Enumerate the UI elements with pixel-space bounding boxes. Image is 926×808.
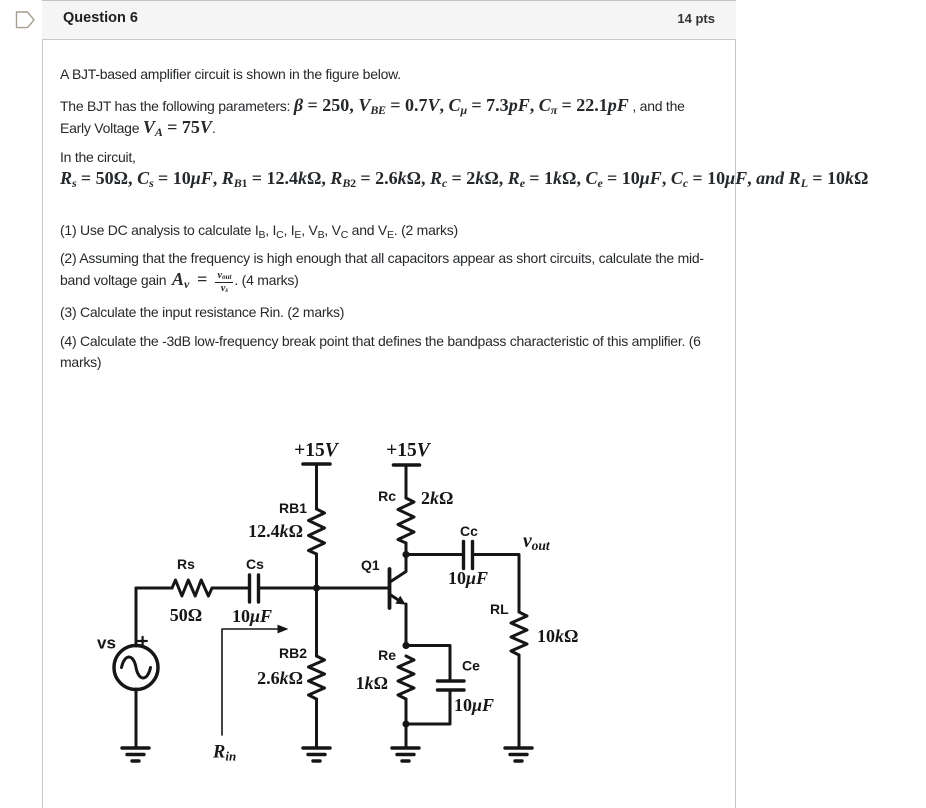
ground under Re bbox=[392, 748, 419, 761]
resistor Rc bbox=[398, 498, 414, 543]
wire Cc to vout corner bbox=[473, 555, 520, 613]
paragraph 1 bbox=[60, 64, 401, 85]
item 1 bbox=[60, 220, 458, 241]
svg-text:10μF: 10μF bbox=[232, 606, 272, 626]
svg-text:Q1: Q1 bbox=[361, 557, 380, 573]
source vs bbox=[114, 646, 158, 690]
question header bbox=[42, 0, 734, 1]
item 2 bbox=[60, 248, 704, 293]
resistor RB2 bbox=[309, 656, 325, 699]
node base junction bbox=[313, 584, 320, 591]
node collector bbox=[402, 551, 409, 558]
wire collector to Cc bbox=[406, 553, 463, 556]
svg-text:12.4kΩ: 12.4kΩ bbox=[248, 521, 303, 541]
wire supply to RB1 bbox=[315, 464, 318, 509]
wire RL to ground bbox=[518, 655, 521, 747]
svg-text:RB1: RB1 bbox=[279, 500, 307, 516]
svg-text:RB2: RB2 bbox=[279, 645, 307, 661]
svg-text:10kΩ: 10kΩ bbox=[537, 626, 578, 646]
resistor RB1 bbox=[309, 509, 325, 554]
supply bar left (+15V RB1 branch) bbox=[303, 462, 330, 466]
wire vs to Rs bbox=[136, 587, 172, 590]
svg-text:Rs: Rs bbox=[177, 556, 195, 572]
svg-text:+15V: +15V bbox=[386, 440, 432, 461]
resistor Rs bbox=[172, 580, 212, 596]
wire vs bottom bbox=[135, 689, 138, 747]
wire vs top bbox=[135, 588, 138, 646]
svg-text:10μF: 10μF bbox=[448, 568, 488, 588]
question container bbox=[42, 0, 736, 808]
svg-text:vout: vout bbox=[523, 531, 551, 553]
svg-text:Ce: Ce bbox=[462, 658, 480, 674]
svg-text:2kΩ: 2kΩ bbox=[421, 488, 453, 508]
Rin measurement arrow bbox=[222, 625, 289, 735]
wire emitter node to Ce top bbox=[406, 646, 450, 680]
svg-text:1kΩ: 1kΩ bbox=[356, 673, 388, 693]
wire RB1 to RB2 through base node bbox=[315, 554, 318, 656]
item 3 bbox=[60, 302, 344, 323]
paragraph 2 bbox=[60, 95, 685, 139]
capacitor Ce bbox=[438, 681, 465, 690]
transistor Q1 bbox=[388, 569, 392, 608]
svg-text:10μF: 10μF bbox=[454, 695, 494, 715]
plus polarity bbox=[138, 637, 147, 646]
wire supply to Rc bbox=[405, 465, 408, 498]
node emitter junction bbox=[402, 642, 409, 649]
emitter wire bbox=[405, 604, 408, 646]
wire Rc to collector node bbox=[405, 543, 408, 571]
wire Rs to Cs bbox=[212, 587, 249, 590]
resistor RL bbox=[511, 612, 527, 655]
ground under vs bbox=[122, 748, 149, 761]
bookmark flag icon bbox=[0, 0, 42, 36]
wire Ce bottom to bottom node bbox=[406, 692, 450, 725]
node emitter bottom junction bbox=[402, 720, 409, 727]
wire bottom node to ground bbox=[405, 724, 408, 747]
wire Cs to Q1 base bbox=[259, 587, 389, 590]
figure labels bbox=[97, 440, 578, 764]
svg-text:vs: vs bbox=[97, 634, 116, 653]
svg-text:Re: Re bbox=[378, 647, 396, 663]
wire RB2 to ground bbox=[315, 699, 318, 747]
ground under RL bbox=[505, 748, 532, 761]
capacitor Cs bbox=[250, 575, 259, 602]
svg-text:50Ω: 50Ω bbox=[170, 605, 202, 625]
item 4 bbox=[60, 331, 701, 373]
svg-text:2.6kΩ: 2.6kΩ bbox=[257, 668, 303, 688]
ground under RB2 bbox=[303, 748, 330, 761]
svg-text:+15V: +15V bbox=[294, 440, 340, 461]
supply bar right (+15V Rc branch) bbox=[394, 463, 420, 467]
wire Re to bottom node bbox=[405, 699, 408, 724]
svg-text:Cc: Cc bbox=[460, 523, 478, 539]
svg-text:Rin: Rin bbox=[212, 743, 236, 764]
capacitor Cc bbox=[464, 542, 473, 569]
resistor Re bbox=[398, 656, 414, 699]
svg-text:Rc: Rc bbox=[378, 488, 396, 504]
paragraph 3 bbox=[60, 147, 868, 190]
svg-text:RL: RL bbox=[490, 601, 509, 617]
svg-text:Cs: Cs bbox=[246, 556, 264, 572]
